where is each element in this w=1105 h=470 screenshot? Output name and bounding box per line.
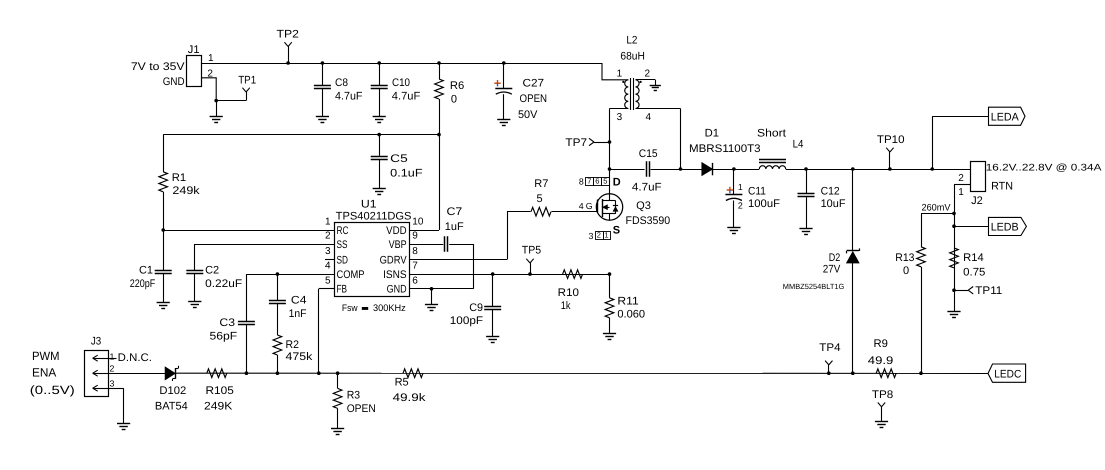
junction C3 bottom [245, 371, 249, 375]
resistor R1 [159, 135, 200, 230]
capacitor C9 [450, 274, 501, 336]
svg-text:D.N.C.: D.N.C. [118, 352, 152, 364]
svg-text:7V to 35V: 7V to 35V [131, 61, 185, 73]
svg-text:FDS3590: FDS3590 [626, 215, 671, 227]
svg-text:TP5: TP5 [522, 245, 541, 257]
svg-text:LEDC: LEDC [994, 369, 1021, 381]
svg-text:3: 3 [589, 231, 594, 241]
svg-text:R105: R105 [206, 385, 234, 397]
transistor Q3 FDS3590 [596, 194, 670, 227]
junction C10 top [377, 61, 381, 65]
svg-text:5: 5 [603, 177, 607, 186]
wire GND pin 6 [409, 288, 473, 290]
resistor R13 [895, 213, 925, 373]
ground C12 [799, 229, 812, 235]
svg-text:Fsw: Fsw [342, 303, 358, 314]
svg-text:1: 1 [208, 53, 214, 64]
svg-text:3: 3 [617, 112, 623, 123]
svg-text:L2: L2 [626, 35, 637, 47]
resistor R9 [868, 338, 896, 378]
junction R13 bottom [919, 371, 923, 375]
svg-text:249K: 249K [204, 401, 233, 413]
test point TP4 [819, 342, 840, 373]
wire C15 to L2 pin4 node [651, 169, 681, 171]
junction C5 top [377, 133, 381, 137]
svg-text:LEDB: LEDB [991, 222, 1019, 234]
wire 260mV sense [921, 203, 954, 214]
svg-text:68uH: 68uH [620, 51, 645, 63]
svg-text:2: 2 [958, 173, 964, 184]
wire switch node vertical [609, 109, 611, 170]
svg-text:D1: D1 [705, 127, 719, 139]
ground C9 [486, 337, 499, 343]
wire RC to U1 [163, 230, 334, 232]
connector J1 [131, 44, 214, 88]
svg-text:50V: 50V [518, 109, 538, 121]
Q3 source pin numbers 321 [589, 231, 611, 241]
svg-text:300KHz: 300KHz [373, 303, 406, 314]
svg-text:1: 1 [325, 217, 331, 228]
svg-text:4: 4 [325, 261, 331, 272]
resistor R5 [393, 369, 426, 404]
svg-text:R10: R10 [558, 287, 579, 299]
svg-text:4: 4 [579, 201, 584, 211]
svg-text:C10: C10 [392, 77, 410, 89]
junction R1/RC node [161, 228, 165, 232]
svg-text:FB: FB [337, 284, 348, 296]
svg-text:0.75: 0.75 [963, 266, 985, 278]
junction TP4 [827, 371, 831, 375]
svg-text:2: 2 [325, 231, 331, 242]
L2 pin numbers [617, 68, 652, 123]
wire ISNS [409, 274, 610, 276]
svg-text:4.7uF: 4.7uF [632, 182, 662, 194]
svg-text:1k: 1k [561, 300, 571, 312]
test point TP11 [954, 285, 1002, 297]
svg-text:7: 7 [587, 177, 591, 186]
svg-text:PWM: PWM [32, 349, 60, 363]
capacitor C4 [269, 274, 307, 335]
wire LEDB branch [954, 226, 989, 228]
net flag LEDA [989, 107, 1026, 125]
diode D102 BAT54 [155, 366, 188, 413]
J3 pin1 D.N.C. [108, 352, 152, 364]
connector J2 [958, 162, 1102, 207]
svg-text:0.1uF: 0.1uF [390, 167, 423, 179]
svg-text:VBP: VBP [389, 239, 407, 251]
resistor R11 [605, 274, 645, 333]
svg-text:SS: SS [337, 239, 348, 251]
svg-text:D102: D102 [159, 385, 186, 397]
svg-text:ENA: ENA [32, 366, 56, 380]
svg-text:49.9k: 49.9k [393, 392, 426, 404]
svg-text:RC: RC [337, 225, 349, 237]
svg-text:C15: C15 [639, 148, 658, 160]
connector J3 [30, 336, 115, 397]
junction U1 GND [430, 287, 434, 291]
svg-text:249k: 249k [172, 185, 200, 197]
ground R14 [947, 312, 960, 318]
capacitor C1 [130, 230, 172, 303]
svg-text:8: 8 [579, 176, 584, 186]
ground J3 pin3 [117, 424, 130, 430]
ground C8 [316, 117, 329, 123]
wire VIN top rail [202, 63, 602, 65]
svg-text:C3: C3 [219, 317, 235, 329]
svg-text:1: 1 [604, 231, 608, 240]
wire VDD rail [163, 134, 439, 136]
resistor R6 [435, 63, 465, 230]
Q3 drain pin numbers 8765 [579, 176, 610, 186]
ground R3 [331, 429, 344, 435]
svg-text:TP4: TP4 [819, 342, 840, 354]
svg-text:BAT54: BAT54 [155, 401, 188, 413]
svg-text:220pF: 220pF [130, 278, 156, 290]
test point TP1 [238, 74, 256, 100]
wire L2 pin4 down [680, 109, 682, 170]
svg-text:6: 6 [595, 177, 599, 186]
svg-text:2: 2 [597, 231, 601, 240]
svg-text:C12: C12 [821, 186, 840, 198]
svg-text:1nF: 1nF [289, 308, 307, 320]
wire C11 node to L4 [734, 169, 759, 171]
svg-text:3: 3 [110, 379, 115, 389]
svg-text:100pF: 100pF [450, 315, 483, 327]
resistor R14 [950, 248, 986, 278]
svg-text:L4: L4 [793, 139, 804, 151]
svg-text:LEDA: LEDA [991, 112, 1020, 124]
svg-text:R13: R13 [895, 252, 914, 264]
svg-text:SD: SD [337, 254, 349, 266]
ground C5 [373, 189, 386, 195]
junction ISNS/C9 [491, 272, 495, 276]
svg-text:C4: C4 [291, 295, 307, 307]
svg-text:S: S [613, 225, 620, 237]
wire L4 to C12 node [786, 169, 806, 171]
svg-text:RTN: RTN [991, 180, 1013, 192]
svg-text:10uF: 10uF [821, 198, 846, 210]
wire PWM rail (bottom) [108, 372, 988, 374]
svg-text:R5: R5 [395, 376, 409, 388]
svg-text:J2: J2 [971, 195, 983, 207]
junction TP2 [286, 61, 290, 65]
svg-text:1: 1 [738, 182, 743, 192]
svg-text:TP1: TP1 [238, 74, 256, 86]
svg-text:1: 1 [110, 351, 115, 361]
svg-text:6: 6 [412, 275, 418, 286]
net flag LEDB [989, 217, 1027, 235]
svg-text:U1: U1 [361, 199, 377, 211]
svg-text:J3: J3 [91, 336, 101, 348]
junction ISNS/source [608, 272, 612, 276]
capacitor C15 [632, 148, 662, 194]
U1 pin 3 SD stub [325, 259, 334, 261]
svg-text:56pF: 56pF [210, 331, 238, 343]
svg-text:R2: R2 [286, 339, 299, 351]
op-amp controller U1 TPS40211DGS [335, 199, 412, 315]
svg-text:260mV: 260mV [922, 203, 952, 214]
svg-text:4.7uF: 4.7uF [335, 90, 363, 102]
svg-text:TP8: TP8 [872, 389, 893, 401]
U1 pin numbers [325, 217, 424, 287]
resistor R7 [531, 178, 598, 216]
svg-text:GND: GND [387, 284, 407, 296]
capacitor C8 [314, 63, 363, 117]
ground C10 [373, 117, 386, 123]
svg-text:R11: R11 [617, 296, 638, 308]
test point TP8 [872, 389, 893, 422]
svg-text:TPS40211DGS: TPS40211DGS [336, 210, 412, 222]
svg-text:COMP: COMP [337, 269, 365, 281]
capacitor C10 [371, 63, 421, 117]
junction R3 top [336, 371, 340, 375]
junction L2 pin4 node [679, 167, 683, 171]
capacitor C5 [371, 135, 423, 189]
junction R6/VDD rail2 [437, 133, 441, 137]
svg-text:9: 9 [412, 231, 418, 242]
resistor R2 [273, 335, 313, 373]
svg-text:R14: R14 [963, 252, 984, 264]
svg-text:Short: Short [757, 127, 786, 139]
wire J2 pin1 [954, 184, 970, 311]
ground L2 pin2 [650, 80, 661, 91]
svg-text:0.22uF: 0.22uF [205, 278, 242, 290]
junction TP5 [528, 272, 532, 276]
wire COMP to U1 [246, 274, 334, 276]
svg-text:R6: R6 [450, 80, 464, 92]
svg-text:100uF: 100uF [748, 198, 780, 210]
junction D2 top [851, 167, 855, 171]
wire J1 pin2 to ground and TP1 [202, 78, 247, 117]
svg-text:4.7uF: 4.7uF [392, 90, 421, 102]
wire GDRV to R7 [409, 212, 531, 260]
resistor R105 [204, 369, 234, 413]
junction C11 node [732, 167, 736, 171]
capacitor C12 [798, 169, 846, 228]
Q3 drain/source labels [613, 176, 621, 236]
svg-text:TP10: TP10 [877, 134, 905, 146]
resistor R10 [558, 270, 583, 312]
junction C12 node [804, 167, 808, 171]
svg-text:7: 7 [412, 261, 418, 272]
ground U1 pin6 [425, 289, 438, 311]
wire VBP pin [409, 244, 443, 246]
svg-text:16.2V..22.8V @ 0.34A: 16.2V..22.8V @ 0.34A [986, 163, 1102, 174]
ground R11 [603, 334, 616, 340]
wire drain to C15 [610, 169, 645, 171]
junction COMP/C4 [276, 272, 280, 276]
junction drain node [608, 167, 612, 171]
Q3 gate pin number 4 [579, 201, 593, 211]
svg-text:TP7: TP7 [565, 137, 587, 149]
diode D1 MBRS1100T3 [689, 127, 761, 175]
capacitor C27 polarized [494, 63, 547, 121]
ground C11 [727, 228, 740, 234]
wire output rail [806, 169, 970, 171]
ground C1 [157, 303, 170, 309]
junction TP7 [608, 140, 612, 144]
svg-text:5: 5 [537, 193, 543, 205]
svg-text:C8: C8 [335, 77, 348, 89]
junction FB bottom [317, 371, 321, 375]
svg-text:475k: 475k [286, 351, 313, 363]
svg-text:VDD: VDD [386, 225, 407, 237]
J3 arrows [93, 355, 108, 391]
test point TP10 [877, 134, 905, 169]
U1 pin names [337, 225, 408, 296]
svg-text:0: 0 [451, 94, 457, 106]
junction R2 bottom [276, 371, 280, 375]
ground C2 [188, 302, 201, 308]
ground at J1 pin2 [210, 117, 223, 123]
svg-text:OPEN: OPEN [520, 93, 548, 105]
junction TP10 [888, 167, 892, 171]
svg-text:TP2: TP2 [277, 29, 299, 41]
svg-text:MBRS1100T3: MBRS1100T3 [689, 143, 761, 155]
ground C27 [497, 120, 510, 126]
svg-text:0: 0 [903, 265, 909, 277]
svg-text:R1: R1 [172, 172, 186, 184]
test point TP5 [522, 245, 541, 274]
svg-text:C1: C1 [139, 264, 153, 276]
svg-text:TP11: TP11 [975, 285, 1002, 297]
svg-text:1: 1 [617, 68, 623, 79]
junction D2 bottom [851, 371, 855, 375]
capacitor C11 polarized [725, 169, 780, 228]
capacitor C7 [445, 206, 474, 289]
svg-text:C9: C9 [469, 302, 483, 314]
J3 pin3 to ground [108, 388, 124, 424]
ground TP8 [875, 422, 888, 428]
svg-text:C7: C7 [447, 206, 463, 218]
resistor R3 [333, 373, 376, 429]
wire D1 cathode to C11 node [713, 169, 734, 171]
svg-text:4: 4 [646, 112, 652, 123]
svg-text:GDRV: GDRV [380, 254, 408, 266]
junction TP11 [952, 288, 956, 292]
svg-text:27V: 27V [823, 263, 841, 275]
svg-text:J1: J1 [188, 44, 200, 56]
svg-text:(0..5V): (0..5V) [30, 383, 75, 397]
net flag LEDC [988, 364, 1026, 382]
junction J1 pin2 node [214, 99, 218, 103]
svg-text:Q3: Q3 [636, 200, 651, 212]
junction LEDA branch [930, 167, 934, 171]
svg-text:OPEN: OPEN [347, 403, 376, 415]
svg-text:3: 3 [325, 246, 331, 257]
wire FB to U1 [319, 289, 335, 374]
wire to D1 [681, 169, 703, 171]
junction C8 top [321, 61, 325, 65]
svg-text:8: 8 [412, 246, 418, 257]
svg-text:5: 5 [325, 275, 331, 286]
svg-text:2: 2 [738, 200, 743, 210]
inductor L2 coupled [602, 35, 681, 110]
svg-text:R3: R3 [347, 390, 360, 402]
wire LEDA branch [932, 116, 988, 169]
svg-text:2: 2 [110, 364, 115, 374]
wire VDD pin to rail [409, 230, 439, 232]
test point TP2 [277, 29, 299, 63]
capacitor C2 [186, 244, 242, 302]
svg-text:G: G [586, 201, 593, 211]
svg-text:0.060: 0.060 [617, 309, 645, 321]
svg-text:GND: GND [163, 76, 185, 88]
junction C27 top [502, 61, 506, 65]
svg-text:MMBZ5254BLT1G: MMBZ5254BLT1G [783, 282, 845, 291]
wire Q3 drain to node [609, 169, 611, 194]
svg-text:2: 2 [645, 68, 651, 79]
inductor L4 (Short) [757, 127, 803, 169]
svg-text:1: 1 [958, 187, 964, 198]
svg-text:D: D [613, 176, 621, 188]
capacitor C3 [210, 274, 255, 373]
svg-text:C27: C27 [523, 78, 545, 90]
svg-text:49.9: 49.9 [868, 355, 894, 367]
svg-text:ISNS: ISNS [383, 269, 407, 281]
svg-text:R7: R7 [534, 178, 548, 190]
svg-text:D2: D2 [829, 252, 841, 264]
svg-text:1uF: 1uF [445, 221, 464, 233]
svg-text:C11: C11 [748, 185, 766, 197]
svg-text:R9: R9 [874, 338, 888, 350]
svg-text:C2: C2 [205, 264, 219, 276]
wire SS to U1 [195, 244, 334, 246]
svg-text:C5: C5 [390, 153, 408, 165]
zener diode D2 MMBZ5254BLT1G [783, 169, 860, 373]
junction LEDB branch [952, 224, 956, 228]
junction R6 top [437, 61, 441, 65]
test point TP7 [565, 137, 609, 149]
junction 260mV [952, 212, 956, 216]
svg-text:10: 10 [412, 217, 424, 228]
